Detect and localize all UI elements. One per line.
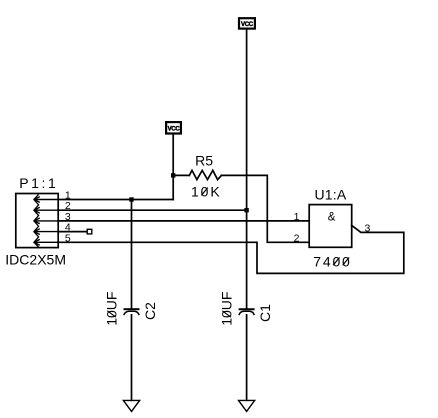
svg-text:10UF: 10UF bbox=[104, 292, 120, 326]
svg-text:1: 1 bbox=[294, 211, 300, 223]
svg-text:VCC: VCC bbox=[168, 126, 181, 132]
svg-text:5: 5 bbox=[65, 232, 71, 244]
svg-text:VCC: VCC bbox=[241, 22, 254, 28]
svg-text:10UF: 10UF bbox=[219, 292, 235, 326]
svg-text:C1: C1 bbox=[257, 304, 273, 322]
svg-text:3: 3 bbox=[364, 222, 370, 234]
svg-text:&: & bbox=[328, 211, 336, 223]
svg-text:P1:1: P1:1 bbox=[19, 175, 58, 191]
svg-text:U1:A: U1:A bbox=[315, 187, 347, 203]
svg-text:R5: R5 bbox=[195, 152, 213, 168]
svg-text:IDC2X5M: IDC2X5M bbox=[5, 251, 66, 267]
svg-text:2: 2 bbox=[294, 233, 300, 245]
svg-text:C2: C2 bbox=[142, 302, 158, 320]
svg-text:10K: 10K bbox=[191, 184, 222, 200]
